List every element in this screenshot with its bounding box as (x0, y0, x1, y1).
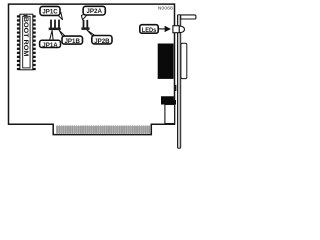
label JP1B (62, 36, 83, 44)
component block (black) (161, 96, 176, 104)
bracket bar (178, 15, 181, 149)
component box (white) (165, 105, 175, 124)
edge connector fingers (56, 126, 150, 134)
svg-text:JP1B: JP1B (65, 38, 81, 45)
boot rom chip U1 notch (23, 15, 27, 17)
boot rom chip U1 body (20, 14, 33, 70)
RJ45 port through bracket (181, 43, 187, 78)
svg-text:JP2B: JP2B (94, 38, 110, 45)
callout tail JP1C (57, 12, 63, 19)
LEDs arrow line (158, 28, 165, 30)
callout tail JP1B (59, 30, 65, 36)
jumper block JP1 pins (49, 20, 61, 31)
svg-text:N0068: N0068 (158, 6, 173, 12)
LED lens (179, 26, 184, 32)
jumper block JP2 pins (81, 20, 89, 30)
callout tail JP1A (50, 30, 54, 40)
RJ45 jack (black) (158, 44, 174, 79)
label JP2A (83, 6, 105, 15)
LED hole on bracket (173, 26, 179, 33)
svg-text:BOOT ROM: BOOT ROM (22, 17, 28, 57)
label JP1C (40, 6, 60, 15)
svg-text:JP1C: JP1C (42, 9, 58, 16)
board outline (9, 4, 175, 135)
boot rom chip U1 label box (23, 16, 30, 68)
label JP2B (92, 36, 112, 44)
svg-text:JP2A: JP2A (86, 8, 102, 15)
connector clip (174, 85, 176, 91)
svg-text:LEDs: LEDs (142, 27, 157, 34)
callout tail JP2A (81, 14, 87, 19)
label LEDs (140, 25, 158, 34)
label JP1A (40, 40, 61, 47)
LEDs arrow head (165, 26, 171, 32)
bracket top tab (181, 15, 196, 19)
boot rom chip U1 pins (17, 15, 36, 70)
callout tail JP2B (87, 30, 95, 36)
svg-text:JP1A: JP1A (42, 42, 58, 49)
